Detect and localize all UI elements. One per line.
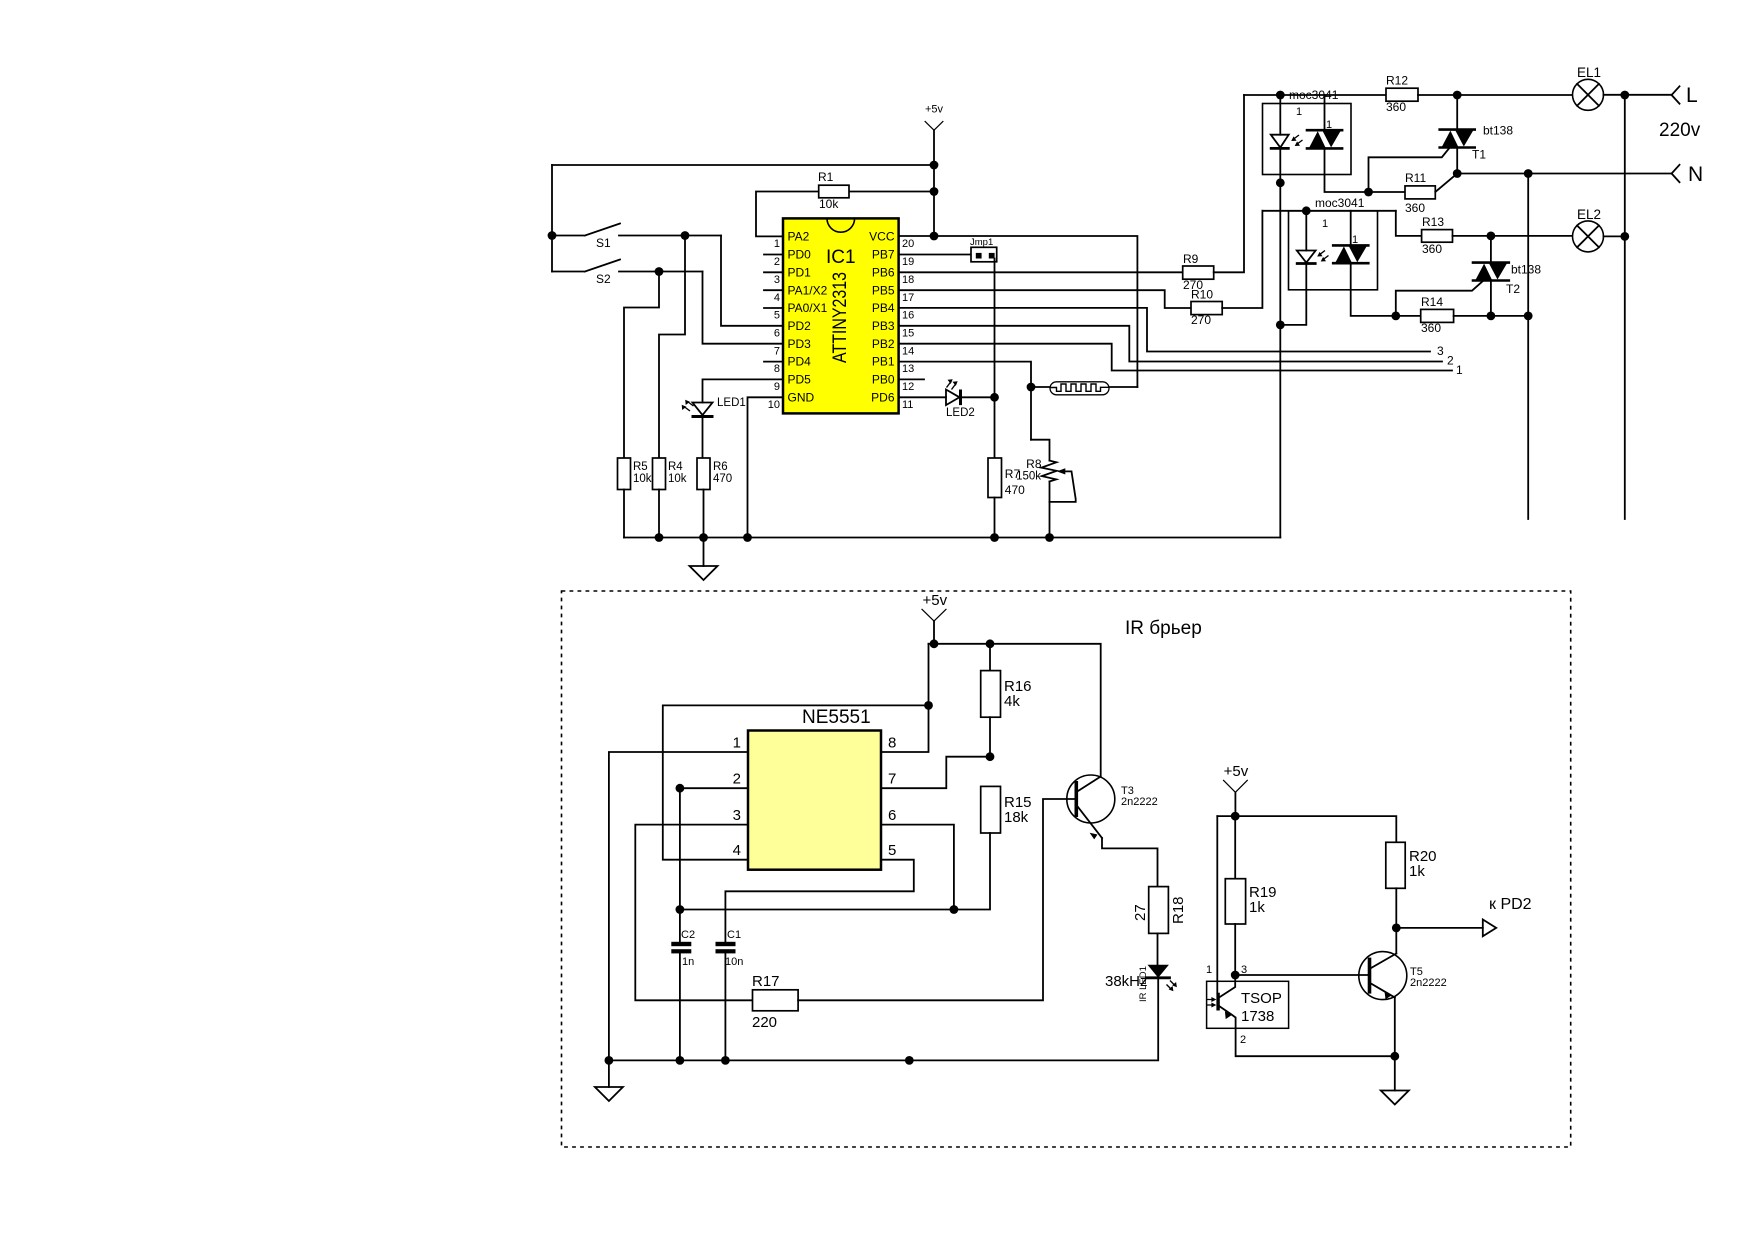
IC U2 NE5551	[733, 707, 897, 870]
IR LED D1	[909, 965, 1177, 1061]
svg-text:S2: S2	[596, 272, 611, 286]
node moc1 LED cathode dot	[1276, 178, 1285, 187]
terminal к PD2 arrow	[1483, 896, 1532, 936]
svg-text:R1: R1	[818, 170, 834, 184]
svg-text:ATTINY2313: ATTINY2313	[830, 272, 851, 363]
svg-text:VCC: VCC	[869, 230, 895, 244]
wire pin13 PB1 down to fuse node	[899, 362, 1031, 440]
svg-text:R18: R18	[1170, 896, 1187, 924]
svg-text:PB5: PB5	[872, 284, 895, 298]
svg-text:10k: 10k	[668, 473, 687, 485]
node R16/R15/pin7 junction	[986, 752, 995, 761]
LED LED1	[682, 397, 746, 458]
svg-text:PD4: PD4	[788, 355, 812, 369]
node fuse left junction	[1027, 383, 1036, 392]
svg-text:PD2: PD2	[788, 319, 812, 333]
capacitor C2	[671, 929, 695, 1060]
svg-text:PD6: PD6	[871, 391, 895, 405]
svg-text:270: 270	[1191, 313, 1211, 327]
node R16 top junction	[986, 639, 995, 648]
node R1 right junction	[930, 187, 939, 196]
node pin8/pin4 junction	[924, 701, 933, 710]
wire +5v down to pin8 node	[928, 644, 930, 706]
svg-text:moc3041: moc3041	[1315, 196, 1365, 210]
svg-text:PB4: PB4	[872, 301, 895, 315]
wire R10 to moc2 top	[1262, 210, 1395, 212]
svg-text:4: 4	[774, 292, 780, 304]
svg-text:PB7: PB7	[872, 248, 895, 262]
node moc LED cathodes join	[1276, 321, 1285, 330]
svg-text:8: 8	[888, 735, 896, 752]
power +5v symbol (IR left)	[922, 592, 948, 644]
wire pin16 PB4 to stub 3	[899, 308, 1430, 352]
svg-text:11: 11	[902, 399, 913, 411]
wire pin2 to C2	[680, 788, 748, 942]
IC1 unconnected stubs pins 2,3,4,5,8	[764, 255, 783, 362]
svg-text:TSOP: TSOP	[1241, 990, 1282, 1007]
svg-text:R10: R10	[1191, 288, 1213, 302]
IC IC1 ATTINY2313	[783, 218, 899, 413]
wire right vertical from EL1	[1624, 95, 1626, 519]
svg-text:13: 13	[902, 363, 914, 375]
node T2 MT1 junction	[1487, 312, 1496, 321]
node C2 column junction	[676, 905, 685, 914]
fuse/link FU	[1031, 382, 1137, 395]
svg-text:150k: 150k	[1016, 471, 1041, 483]
node +5v right junction	[1231, 812, 1240, 821]
svg-text:GND: GND	[788, 391, 815, 405]
wire pin4 detour around IC	[663, 705, 929, 859]
svg-text:bt138: bt138	[1511, 263, 1541, 277]
node T2 top junction	[1487, 232, 1496, 241]
svg-text:1k: 1k	[1409, 863, 1425, 880]
wire threshold row y=909.5	[680, 909, 954, 911]
wire pin6 jog down	[881, 825, 954, 910]
svg-text:470: 470	[1005, 483, 1025, 497]
node EL1 right junction	[1620, 91, 1629, 100]
svg-text:470: 470	[713, 473, 732, 485]
ground symbol IR left	[595, 1087, 623, 1101]
svg-text:+5v: +5v	[923, 592, 948, 609]
svg-text:4: 4	[733, 842, 741, 859]
svg-text:18: 18	[902, 274, 914, 286]
IC1 pin numbers	[768, 238, 915, 411]
node TSOP pin3 junction	[1231, 971, 1240, 980]
potentiometer R8	[1016, 440, 1076, 538]
wire TSOP pin1	[1216, 816, 1218, 993]
optocoupler moc1 moc3041 box	[1263, 88, 1352, 175]
power +5v symbol (top)	[925, 104, 944, 166]
svg-text:R17: R17	[752, 973, 780, 990]
svg-text:PD3: PD3	[788, 337, 812, 351]
node T1 MT1 / N junction	[1453, 169, 1462, 178]
svg-text:IC1: IC1	[826, 247, 856, 268]
node S1 left junction	[548, 231, 557, 240]
resistor R13	[1422, 215, 1573, 256]
svg-text:Jmp1: Jmp1	[970, 237, 993, 248]
node R20/T5 collector/PD2 junction	[1392, 924, 1401, 933]
svg-text:1: 1	[1296, 106, 1302, 118]
svg-text:1738: 1738	[1241, 1008, 1274, 1025]
resistor R10	[1191, 211, 1262, 327]
wire pin17 PB5 to R10	[899, 290, 1191, 308]
svg-text:7: 7	[888, 771, 896, 788]
switch S2	[552, 260, 703, 287]
wire pin10 GND down to bus	[748, 397, 784, 537]
node +5v IR junction	[930, 639, 939, 648]
wire pin11 PD6 to LED2	[899, 396, 946, 398]
svg-text:R8: R8	[1026, 457, 1042, 471]
svg-text:1: 1	[774, 238, 780, 250]
svg-text:2: 2	[733, 771, 741, 788]
wire pin5 jog to C1	[725, 860, 913, 942]
svg-text:L: L	[1686, 84, 1698, 107]
svg-text:9: 9	[774, 381, 780, 393]
triac T2 bt138	[1396, 236, 1542, 316]
svg-text:12: 12	[902, 381, 914, 393]
svg-text:PA2: PA2	[788, 230, 810, 244]
svg-text:PD1: PD1	[788, 266, 812, 280]
node S1 right junction	[681, 231, 690, 240]
resistor R20	[1386, 842, 1437, 953]
resistor R19	[1225, 816, 1276, 975]
svg-text:+5v: +5v	[1224, 763, 1249, 780]
svg-text:6: 6	[774, 328, 780, 340]
svg-text:T2: T2	[1506, 282, 1520, 296]
resistor R15	[954, 786, 1032, 909]
svg-text:220v: 220v	[1659, 120, 1701, 141]
svg-text:PB6: PB6	[872, 266, 895, 280]
svg-text:к PD2: к PD2	[1489, 896, 1532, 913]
wire +5v vertical to VCC	[933, 165, 935, 236]
node R14 right / N branch junction	[1524, 312, 1533, 321]
resistor R11	[1369, 171, 1458, 215]
terminal L arrow	[1672, 84, 1698, 107]
node N / right branch junction	[1524, 169, 1533, 178]
wire +5v rail horizontal y=164	[552, 164, 934, 166]
svg-text:360: 360	[1421, 321, 1441, 335]
svg-text:6: 6	[888, 807, 896, 824]
svg-text:2: 2	[1240, 1034, 1246, 1046]
svg-text:360: 360	[1405, 201, 1425, 215]
svg-text:3: 3	[1241, 964, 1247, 976]
terminal N arrow	[1672, 163, 1704, 186]
IR receiver TSOP1738	[1206, 964, 1395, 1056]
svg-text:1: 1	[733, 735, 741, 752]
capacitor C1	[716, 929, 744, 1060]
svg-text:1n: 1n	[682, 956, 694, 968]
wire pin1 to ground	[609, 752, 748, 1087]
svg-text:NE5551: NE5551	[802, 707, 871, 728]
ground symbol top section	[690, 538, 718, 581]
node S2 right junction	[655, 267, 664, 276]
svg-text:4k: 4k	[1004, 693, 1020, 710]
wire pin14 PB2 to stub 1	[899, 344, 1452, 371]
stub pin12 PB0	[899, 378, 924, 380]
resistor R4	[653, 458, 687, 538]
svg-text:PB1: PB1	[872, 355, 895, 369]
svg-text:+5v: +5v	[925, 104, 944, 116]
node pin2 junction	[676, 784, 685, 793]
dashed border IR barrier	[562, 591, 1571, 1147]
svg-text:bt138: bt138	[1483, 124, 1513, 138]
node T1 top junction	[1453, 91, 1462, 100]
svg-text:17: 17	[902, 292, 914, 304]
svg-text:2: 2	[774, 256, 780, 268]
svg-text:220: 220	[752, 1014, 777, 1031]
svg-text:27: 27	[1132, 904, 1149, 921]
wire VCC row to fuse vertical	[899, 236, 1138, 387]
node VCC junction	[930, 232, 939, 241]
svg-text:T1: T1	[1472, 148, 1486, 162]
jumper Jmp1	[970, 237, 997, 397]
resistor R16	[981, 644, 1032, 757]
svg-text:10: 10	[768, 399, 780, 411]
svg-text:PB0: PB0	[872, 373, 895, 387]
svg-text:LED2: LED2	[946, 407, 975, 419]
LED inside moc2	[1280, 211, 1328, 325]
wire S2 to pin7 PD3	[703, 272, 784, 344]
svg-text:8: 8	[774, 363, 780, 375]
svg-text:10n: 10n	[725, 956, 743, 968]
optocoupler moc2 moc3041 box	[1289, 196, 1378, 290]
switch S1	[552, 224, 721, 251]
svg-text:1: 1	[1322, 218, 1328, 230]
svg-text:EL2: EL2	[1577, 207, 1601, 222]
wire pin7 jog	[881, 757, 990, 789]
lamp EL2	[1573, 207, 1625, 252]
node TSOP pin2 / T5 emitter junction	[1390, 1052, 1399, 1061]
wire pin9 PD5 to LED1	[703, 379, 784, 402]
node moc2 pin4 / R14 / T2 gate	[1391, 312, 1400, 321]
node +5v/rail junction	[930, 161, 939, 170]
svg-text:R13: R13	[1422, 215, 1444, 229]
svg-text:3: 3	[774, 274, 780, 286]
svg-text:1: 1	[1206, 964, 1212, 976]
svg-text:PB3: PB3	[872, 319, 895, 333]
node EL2 right junction	[1620, 232, 1629, 241]
svg-text:7: 7	[774, 346, 780, 358]
node pin6/R15 junction	[950, 905, 959, 914]
svg-text:360: 360	[1386, 100, 1406, 114]
triac inside moc2	[1332, 211, 1396, 316]
wire moc1 top rail y=95	[1244, 94, 1386, 96]
wire ground bus top section	[624, 537, 1280, 539]
power +5v symbol (IR right)	[1223, 763, 1249, 816]
svg-text:3: 3	[733, 807, 741, 824]
svg-text:PD0: PD0	[788, 248, 812, 262]
svg-text:PB2: PB2	[872, 337, 895, 351]
svg-text:5: 5	[888, 842, 896, 859]
triac inside moc1	[1306, 95, 1369, 192]
wire S1 to pin6 PD2	[721, 236, 783, 326]
svg-text:16: 16	[902, 310, 914, 322]
svg-text:R4: R4	[668, 461, 683, 473]
svg-text:19: 19	[902, 256, 914, 268]
node bus junctions	[655, 533, 664, 542]
svg-text:IR брьер: IR брьер	[1125, 618, 1202, 639]
wire +5v to T3 collector	[929, 644, 1101, 777]
svg-text:PA1/X2: PA1/X2	[788, 284, 828, 298]
svg-text:14: 14	[902, 346, 914, 358]
svg-text:R9: R9	[1183, 252, 1199, 266]
ground symbol IR right	[1381, 1091, 1409, 1105]
wire N branch vertical	[1527, 174, 1529, 520]
svg-text:10k: 10k	[819, 197, 839, 211]
svg-text:18k: 18k	[1004, 809, 1029, 826]
svg-text:1: 1	[1456, 363, 1463, 377]
triac T1 bt138	[1369, 95, 1514, 192]
resistor R6	[697, 458, 732, 538]
svg-text:moc3041: moc3041	[1289, 88, 1339, 102]
transistor T5 2n2222	[1359, 952, 1447, 1091]
svg-text:3: 3	[1437, 344, 1444, 358]
resistor R17	[752, 799, 1075, 1031]
svg-text:C2: C2	[681, 929, 695, 941]
wire pin8 to +5v	[881, 705, 929, 752]
svg-text:PD5: PD5	[788, 373, 812, 387]
svg-text:15: 15	[902, 328, 914, 340]
LED LED2	[946, 379, 995, 419]
wire S2 to R5	[624, 272, 659, 459]
svg-text:20: 20	[902, 238, 914, 250]
wire pin15 PB3 to stub 2	[899, 326, 1442, 362]
svg-text:S1: S1	[596, 236, 611, 250]
wire N row	[1457, 173, 1671, 175]
svg-text:IR LED1: IR LED1	[1138, 966, 1149, 1002]
svg-text:C1: C1	[727, 929, 741, 941]
svg-text:2: 2	[1447, 354, 1454, 368]
svg-text:R14: R14	[1421, 295, 1443, 309]
wire to PD2 output	[1396, 927, 1483, 929]
wire pin18 PB6 to R9	[899, 271, 1183, 273]
node moc1 pin4 / R11 / T1 gate	[1364, 188, 1373, 197]
svg-text:EL1: EL1	[1577, 65, 1601, 80]
wire pin3 to R17	[635, 825, 752, 1001]
resistor R14	[1396, 295, 1528, 335]
svg-text:1k: 1k	[1249, 899, 1265, 916]
wire pin19 PB7 to Jmp1	[899, 254, 971, 256]
svg-text:N: N	[1688, 163, 1703, 186]
resistor R1	[756, 170, 934, 236]
node moc1 LED anode	[1276, 91, 1285, 100]
node LED2/Jmp1/R7 junction	[990, 393, 999, 402]
svg-text:2n2222: 2n2222	[1121, 796, 1158, 808]
node moc2 LED anode	[1302, 206, 1311, 215]
svg-text:R5: R5	[633, 461, 648, 473]
svg-text:5: 5	[774, 310, 780, 322]
svg-text:R12: R12	[1386, 74, 1408, 88]
resistor R18	[1132, 887, 1187, 965]
wire moc2 to R13	[1396, 211, 1422, 236]
svg-text:2n2222: 2n2222	[1410, 977, 1447, 989]
resistor R9	[1183, 95, 1244, 292]
resistor R7	[988, 397, 1025, 537]
lamp EL1	[1573, 65, 1672, 110]
wire pin3 to T5 base	[1235, 974, 1368, 976]
svg-text:LED1: LED1	[717, 397, 746, 409]
wire ground bus IR section	[609, 1059, 909, 1061]
svg-text:360: 360	[1422, 242, 1442, 256]
transistor T3 2n2222	[1067, 775, 1158, 887]
resistor R12	[1386, 74, 1573, 115]
wire S1 to R4	[659, 236, 685, 459]
LED inside moc1	[1270, 95, 1303, 538]
wire left rail x=552	[551, 165, 553, 272]
svg-text:PA0/X1: PA0/X1	[788, 301, 828, 315]
svg-text:R6: R6	[713, 461, 728, 473]
resistor R5	[618, 458, 652, 538]
node bus junctions IR	[605, 1056, 614, 1065]
svg-text:R11: R11	[1405, 171, 1426, 185]
wire +5v right rail	[1217, 816, 1396, 842]
svg-text:10k: 10k	[633, 473, 652, 485]
